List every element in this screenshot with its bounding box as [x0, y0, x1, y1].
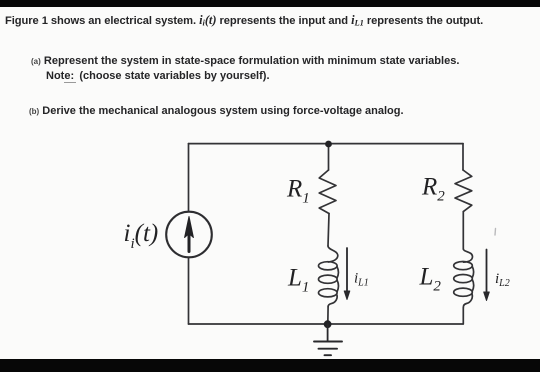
node: top junction dot	[325, 141, 332, 148]
current arrow iL1	[344, 248, 350, 300]
note line (bold)	[46, 70, 270, 82]
top black letterbox bar	[0, 0, 540, 7]
wire: top rail from left corner to right corner	[189, 143, 464, 145]
wire: right rail top segment	[462, 144, 464, 170]
svg-text:R2: R2	[421, 174, 445, 205]
current arrow iL2	[484, 250, 490, 301]
wire: middle branch between R1 and L1	[328, 214, 329, 247]
labels	[124, 174, 510, 296]
ground	[314, 324, 342, 355]
wire: middle branch below L1	[327, 307, 329, 324]
svg-text:iL1: iL1	[354, 271, 369, 289]
wire: right branch below L2	[462, 308, 464, 325]
current source circle	[166, 212, 212, 258]
caption line: Figure 1 ...	[5, 13, 483, 28]
svg-text:ii(t): ii(t)	[124, 220, 159, 252]
node: bottom junction dot	[324, 320, 332, 328]
wire: left rail below current source	[188, 258, 190, 325]
inductor L2	[463, 249, 472, 262]
svg-text:L2: L2	[419, 264, 442, 295]
wire: middle branch from top node to R1	[328, 144, 330, 170]
resistor R1	[319, 170, 336, 214]
wire: right branch between R2 and L2	[462, 212, 464, 249]
svg-text:R1: R1	[286, 176, 310, 207]
item (b) text	[29, 105, 404, 117]
svg-text:L1: L1	[287, 265, 309, 296]
svg-text:iL2: iL2	[495, 271, 510, 289]
wire: bottom rail	[189, 323, 464, 325]
stray faint mark right of R2	[494, 229, 497, 236]
current source arrow (upward)	[185, 217, 194, 252]
resistor R2	[455, 170, 472, 212]
item (a) text	[31, 55, 459, 67]
bottom black letterbox bar	[0, 359, 540, 372]
wire: left rail above current source	[188, 144, 190, 212]
inductor L1	[328, 246, 338, 262]
